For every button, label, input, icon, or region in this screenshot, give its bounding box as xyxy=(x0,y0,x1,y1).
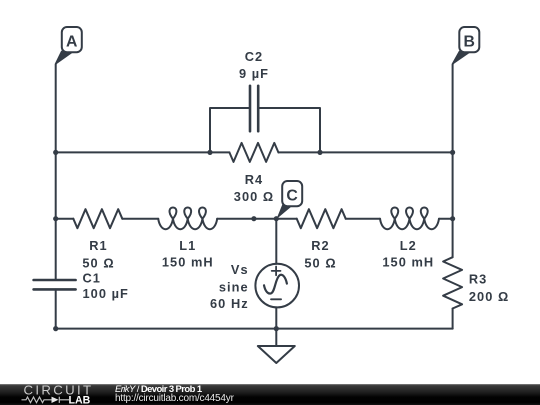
capacitor C2 xyxy=(250,86,258,131)
junction row3-left xyxy=(53,326,58,331)
resistor R4 xyxy=(229,143,278,162)
svg-text:A: A xyxy=(66,33,77,50)
Vs plus sign xyxy=(272,267,281,276)
wire row1 right segment xyxy=(278,151,452,153)
wire row2 L2-right column xyxy=(439,218,453,220)
ground symbol xyxy=(258,346,295,363)
svg-text:B: B xyxy=(463,33,474,50)
svg-text:60 Hz: 60 Hz xyxy=(210,296,249,311)
svg-text:C2: C2 xyxy=(245,49,263,64)
junction row3-ground xyxy=(274,326,279,331)
Vs sine symbol xyxy=(264,275,287,294)
wire left column lower xyxy=(55,289,57,328)
wire row2 left lead xyxy=(56,218,74,220)
footer title xyxy=(115,385,202,395)
wire right column from node B xyxy=(453,52,460,258)
svg-text:200 Ω: 200 Ω xyxy=(469,289,509,304)
node flag A xyxy=(62,27,82,52)
voltage source Vs circle xyxy=(255,264,299,308)
wire C2 branch left riser xyxy=(210,108,250,152)
resistor R2 xyxy=(297,209,346,228)
flag tail B xyxy=(453,51,470,65)
junction row1-left xyxy=(53,150,58,155)
junction row2-left xyxy=(53,216,58,221)
junction row2-right xyxy=(450,216,455,221)
junction row1-C2 left xyxy=(207,150,212,155)
footer bar xyxy=(0,384,540,405)
svg-text:LAB: LAB xyxy=(69,394,91,405)
node flag C xyxy=(282,181,302,206)
node flag B xyxy=(459,27,479,52)
svg-text:9 µF: 9 µF xyxy=(239,66,269,81)
svg-text:R2: R2 xyxy=(311,238,329,253)
wire right column lower xyxy=(452,309,454,329)
svg-text:50 Ω: 50 Ω xyxy=(82,255,114,270)
wire row2 L1-nodeC xyxy=(217,218,297,220)
svg-text:C: C xyxy=(286,187,297,204)
wire Vs bottom lead xyxy=(275,307,277,328)
svg-text:sine: sine xyxy=(219,279,249,294)
ground stub wire xyxy=(275,329,277,346)
Vs minus sign xyxy=(271,298,281,300)
wire row2 R1-L1 xyxy=(122,218,158,220)
svg-text:150 mH: 150 mH xyxy=(162,255,214,270)
flag tail A xyxy=(56,51,72,65)
wire row2 R2-L2 xyxy=(346,218,380,220)
svg-text:R1: R1 xyxy=(89,238,107,253)
wire C2 branch right riser xyxy=(258,108,320,152)
junction row1-right xyxy=(450,150,455,155)
svg-text:R4: R4 xyxy=(245,172,263,187)
CircuitLab logo xyxy=(0,384,110,405)
svg-text:L2: L2 xyxy=(400,238,417,253)
capacitor C1 xyxy=(34,280,76,289)
inductor L2 xyxy=(380,207,439,229)
junction node C xyxy=(274,216,279,221)
resistor R3 xyxy=(443,257,462,308)
wire Vs top lead xyxy=(275,219,277,264)
flag tail C xyxy=(276,205,291,220)
resistor R1 xyxy=(73,209,122,228)
wire left column from node A xyxy=(56,52,62,280)
svg-text:R3: R3 xyxy=(469,272,487,287)
wire row3 bottom xyxy=(56,328,453,330)
junction row2 mid xyxy=(251,216,256,221)
svg-text:100 µF: 100 µF xyxy=(83,286,129,301)
footer url xyxy=(115,394,234,404)
inductor L1 xyxy=(158,207,217,229)
svg-text:150 mH: 150 mH xyxy=(382,255,434,270)
wire row1 left segment xyxy=(56,151,230,153)
junction row1-C2 right xyxy=(317,150,322,155)
svg-text:C1: C1 xyxy=(83,270,101,285)
svg-text:Vs: Vs xyxy=(231,262,249,277)
svg-text:300 Ω: 300 Ω xyxy=(234,189,274,204)
svg-text:50 Ω: 50 Ω xyxy=(304,255,336,270)
svg-text:L1: L1 xyxy=(179,238,196,253)
